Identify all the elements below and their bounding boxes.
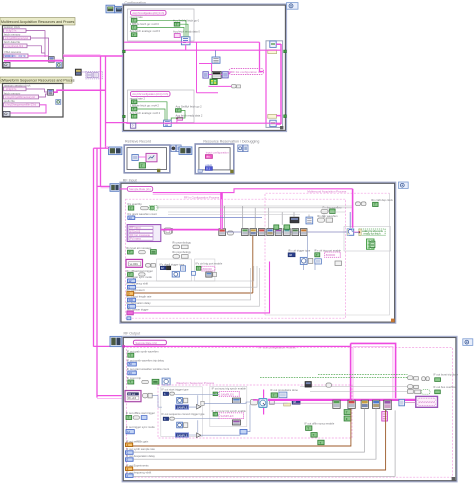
- icon right of Resource Reservation: [238, 145, 243, 152]
- cluster constant: RF out list (hex style): [125, 391, 141, 402]
- wire: merge2 to right: [136, 122, 281, 124]
- wire: sample rate to chain (magenta n shape): [125, 345, 351, 347]
- ring constant navy small 1: [163, 392, 168, 396]
- numeric constant orange 2: [126, 467, 133, 471]
- wire: B box2 to VI: [39, 94, 48, 97]
- node: feedback top: [270, 41, 276, 47]
- node: build array: [212, 57, 220, 63]
- wire: cluster to VI magenta: [161, 229, 219, 231]
- frame: RF In Configuration Process (dashed): [126, 196, 346, 319]
- wire: gray L 5: [133, 410, 395, 476]
- loop condition terminal A: [56, 63, 61, 68]
- VISA resource constant: [4, 54, 29, 58]
- node: small box after arrow1: [201, 401, 204, 405]
- boolean constant: [126, 416, 132, 420]
- icon: error node inside config: [130, 123, 135, 128]
- label: IFx craft dep clock row: [356, 202, 366, 206]
- junction dot: [358, 231, 360, 233]
- svg-text:96 +0/3: 96 +0/3: [128, 397, 137, 400]
- wire: B box3 magenta out: [4, 105, 46, 113]
- group box: dwell trigger: [157, 259, 192, 281]
- node: small gray after VI: [227, 231, 233, 235]
- svg-text:SAMPLEX: SAMPLEX: [221, 392, 234, 396]
- group box: sync trig cluster: [210, 386, 247, 426]
- svg-text:IF out precedains done: IF out precedains done: [270, 388, 298, 392]
- wire: merge1 down: [185, 45, 187, 50]
- node: pair 1: [173, 245, 188, 249]
- node: rounded after: [170, 392, 175, 395]
- numeric constant orange 1: [126, 443, 133, 447]
- VI chain RF Out: [333, 400, 340, 408]
- loop corner: config bottom right: [280, 126, 283, 129]
- svg-text:Multirecord Acquisition Proces: Multirecord Acquisition Process: [307, 190, 346, 194]
- VI icon below 1: [232, 398, 240, 403]
- ring constant: navy small: [292, 400, 300, 405]
- svg-text:T: T: [133, 107, 135, 111]
- nodes: icons row mid right: [181, 266, 186, 271]
- node: small after chain: [399, 399, 405, 405]
- loop corner: retrieve bottom right: [157, 169, 160, 172]
- indicator: waveform green checkered: [367, 239, 375, 249]
- numeric constant blue: [128, 285, 136, 289]
- svg-text:IFx output length rate: IFx output length rate: [126, 294, 152, 298]
- svg-text:IFx grant waveften count: IFx grant waveften count: [128, 212, 158, 216]
- boolean constant: [131, 107, 137, 111]
- node: pair right of hex: [146, 264, 156, 268]
- svg-text:dWaveform Sequencer Resources: dWaveform Sequencer Resources and Proces: [1, 79, 75, 83]
- svg-text:IFx dep waveften: IFx dep waveften: [317, 214, 338, 218]
- constant: beige box: [284, 403, 291, 406]
- svg-text:IM: IM: [161, 267, 164, 270]
- svg-text:IF out offline start trigger: IF out offline start trigger: [126, 411, 155, 415]
- frame: RF Out Configuration Process (dashed): [127, 345, 453, 477]
- wire: nested gray L's to trigger icons: [136, 266, 260, 306]
- wire: B out right: [63, 89, 106, 91]
- boolean constant: [128, 353, 134, 357]
- terminal: config left tunnel 1: [123, 50, 126, 53]
- tunnel label top: [268, 50, 277, 54]
- svg-text:T: T: [198, 266, 200, 270]
- svg-text:Waveform Sequencer Process: Waveform Sequencer Process: [176, 381, 214, 385]
- ring constant navy: [160, 266, 165, 270]
- svg-text:Pd mass: Pd mass: [130, 237, 141, 241]
- string constant: session clock: [4, 29, 27, 33]
- svg-text:IFx avail Rp: IFx avail Rp: [128, 202, 143, 206]
- wire: brown vertical: [134, 236, 253, 293]
- boolean constant: [128, 380, 134, 384]
- svg-text:l/cfg/3 fs: l/cfg/3 fs: [6, 87, 17, 91]
- boolean indicator row 3: [435, 390, 441, 394]
- node: row 3: [408, 390, 421, 394]
- boolean constant: [176, 109, 182, 113]
- label box: Sample Rate (x2) out: [133, 340, 166, 345]
- icon: stop watch at RF Input top-right: [399, 182, 409, 188]
- wire: B box1 to VI: [26, 89, 48, 92]
- error cluster constant left: [179, 147, 192, 155]
- wire: B to config lower tunnel: [106, 122, 132, 125]
- icon: stop watch at Configuration top-right: [287, 3, 299, 10]
- wire: config right vertical pair: [260, 42, 264, 71]
- cluster label dotted 1: [219, 392, 239, 397]
- green dashed indicator: [149, 205, 158, 210]
- boolean constant T: [131, 19, 137, 23]
- svg-text:c:/my2db/memory.txt: c:/my2db/memory.txt: [5, 36, 28, 40]
- wire: A out to Configuration: [63, 55, 123, 57]
- svg-text:IFx craft dep clock: IFx craft dep clock: [371, 198, 393, 202]
- node: feedback bottom: [270, 120, 276, 126]
- wire: vertical bus x=105.5: [105, 56, 107, 148]
- svg-text:l/cfg/3 fs: l/cfg/3 fs: [6, 29, 17, 33]
- error cluster constants left of Configuration: [106, 5, 115, 13]
- wire: tunnel crossing left border: [122, 345, 125, 348]
- string constant: hex display: [126, 259, 143, 267]
- svg-text:T: T: [133, 26, 135, 30]
- wire: branch to RF Input: [97, 185, 110, 187]
- terminal: config right tunnels: [284, 50, 287, 53]
- boolean constant green: [139, 163, 145, 168]
- node: unbundle: [222, 72, 228, 78]
- loop corner: resource bottom right: [230, 170, 233, 173]
- error cluster constant left of RF Input: [110, 184, 120, 192]
- error cluster constant left of Retrieve Record: [109, 147, 122, 155]
- loop corner: RF Input bottom right: [391, 319, 395, 323]
- boolean constant: [271, 393, 277, 398]
- boolean constant: [213, 412, 217, 416]
- wire: xpower trigger pink L: [133, 262, 269, 313]
- svg-text:SAMPLE: SAMPLE: [177, 433, 188, 437]
- frame: Configuration while loop: [123, 5, 286, 132]
- svg-text:T: T: [319, 441, 321, 445]
- svg-text:IF out sequence convert trigge: IF out sequence convert trigger type: [162, 412, 206, 416]
- wire: green dashed H pair: [318, 374, 408, 376]
- svg-text:RF Output: RF Output: [124, 331, 141, 335]
- VISA icon between frames: [75, 69, 81, 75]
- wire: VISA to VI (magenta): [28, 55, 49, 57]
- VI icon: trig helper: [206, 272, 212, 277]
- wire: blue verticals RF out: [218, 393, 387, 416]
- svg-text:RF out: RF out: [128, 393, 136, 396]
- node: build waveform: [306, 217, 313, 224]
- boolean indicator: [152, 379, 159, 384]
- node: small icon right of triggers: [335, 261, 342, 266]
- node: compare icon: [162, 378, 170, 385]
- numeric constant blue: [128, 371, 137, 375]
- wire: retrieve links: [138, 156, 146, 158]
- boolean constant: [131, 26, 137, 30]
- numeric constant blue: [128, 279, 136, 283]
- svg-text:Acq fetch ready data 2: Acq fetch ready data 2: [176, 113, 203, 117]
- wire: center cluster links: [208, 72, 231, 75]
- svg-text:RF In Configuration Process: RF In Configuration Process: [184, 196, 220, 200]
- node: index array center: [203, 72, 209, 78]
- wire: box3 to VI: [27, 46, 45, 53]
- blue constant: [205, 167, 212, 171]
- green array icon: [370, 241, 375, 247]
- wire: vertical bus x=93.5 long: [93, 148, 95, 346]
- wire: gray H rows right: [300, 387, 408, 392]
- string constant: clock: [4, 87, 27, 91]
- svg-text:Resource Reservation / Debuggi: Resource Reservation / Debugging: [203, 140, 259, 144]
- svg-text:IF out bus overflow: IF out bus overflow: [433, 385, 456, 389]
- wire: chain links: [226, 231, 360, 233]
- wire: vertical bus x=100.5: [100, 56, 102, 187]
- wire: config magenta H2: [124, 49, 281, 51]
- error cluster constant left of RF Output: [110, 336, 122, 346]
- wires: trigger section links: [175, 394, 219, 418]
- cluster label dotted right: [325, 252, 341, 257]
- boolean constant: [128, 273, 134, 277]
- node: fetch VI magenta: [146, 153, 157, 161]
- wire: cluster out: [152, 395, 158, 397]
- icons right of Retrieve Record: [171, 145, 176, 152]
- magenta constant box: [177, 117, 183, 120]
- loop condition terminal B: [56, 100, 61, 105]
- svg-text:c:/my2/my2db/memory.txt: c:/my2/my2db/memory.txt: [5, 95, 35, 99]
- svg-text:T: T: [374, 203, 376, 207]
- label box: Acq Ch1 configuration (ACQ 1 Ch): [131, 10, 167, 15]
- boolean constants under chain: [344, 410, 351, 415]
- terminal: config left tunnel 2: [123, 115, 126, 118]
- boolean constant: [128, 250, 134, 254]
- node: rounded pair: [139, 273, 145, 276]
- icon: stop watch at RF Output top-right: [463, 339, 473, 346]
- svg-text:F: F: [346, 417, 348, 421]
- node: compound circle icon 2: [177, 422, 183, 428]
- node: arrow glyph: [141, 206, 149, 209]
- svg-text:VXI0::MXI::INSTR: VXI0::MXI::INSTR: [5, 56, 26, 58]
- svg-text:800000: 800000: [326, 253, 336, 257]
- wire: blue verticals lower: [304, 236, 315, 270]
- wire: config magenta H1: [124, 41, 260, 43]
- svg-text:RF list configuration out: RF list configuration out: [231, 70, 262, 74]
- numeric constant blue r2: [126, 451, 134, 455]
- boolean constant: [315, 253, 320, 257]
- svg-text:SAMPLEX: SAMPLEX: [220, 414, 233, 418]
- svg-text:Acq SetMyl fetch go 2: Acq SetMyl fetch go 2: [176, 105, 203, 109]
- svg-text:input configuration: input configuration: [206, 151, 229, 155]
- cluster constant: RF list rows: [127, 225, 161, 242]
- svg-text:c:/my2/vs2-f13: c:/my2/vs2-f13: [5, 44, 23, 48]
- wire: gray L 3: [133, 408, 376, 459]
- node: small pair below: [315, 259, 322, 264]
- boolean constant: [131, 100, 137, 104]
- wire: brown L 4: [133, 410, 386, 470]
- node: small blue terminal bottom: [127, 317, 131, 320]
- svg-text:IF out synth waveften trip del: IF out synth waveften trip delay: [127, 358, 165, 362]
- boolean constants scattered: [311, 433, 317, 438]
- node: compound circle icon: [177, 398, 183, 404]
- numeric constant blue small: [141, 416, 147, 420]
- numeric indicator blue pair bottom: [240, 430, 247, 435]
- svg-text:T: T: [130, 206, 132, 210]
- boolean constant: [128, 206, 134, 210]
- express VI: acquisition: [347, 229, 353, 235]
- svg-text:ready for fetch: ready for fetch: [364, 231, 381, 235]
- label box: waiting for all records (green): [359, 229, 385, 236]
- svg-text:T: T: [141, 164, 143, 168]
- boolean indicator green: [151, 250, 157, 255]
- wire: branch to Retrieve Record: [94, 147, 109, 149]
- ring constant blue: [288, 253, 295, 257]
- svg-text:T: T: [346, 411, 348, 415]
- wire: main magenta bus out of frame A: [4, 60, 63, 62]
- svg-text:0 1: 0 1: [206, 167, 210, 171]
- loop corner: RF Output bottom right: [452, 477, 456, 481]
- wire: pink drop to express VI: [352, 189, 354, 228]
- ring constant: SAMPLE navy 2: [176, 433, 189, 437]
- boolean constant: [373, 202, 379, 206]
- label box: Acq Ch2 configuration (ACQ 2 Ch): [131, 91, 171, 96]
- svg-text:T: T: [273, 393, 275, 397]
- green dashed label row 3: [421, 390, 430, 395]
- indicator: magenta array stack: [382, 412, 388, 421]
- group box: trig synch enable: [195, 259, 215, 281]
- svg-text:T: T: [176, 22, 178, 26]
- svg-text:800000: 800000: [203, 267, 213, 271]
- numeric constant blue: [128, 305, 136, 309]
- VI icon: acquisition process: [49, 57, 55, 63]
- svg-text:IFx psymbology: IFx psymbology: [172, 250, 191, 254]
- icon: green checkered center: [210, 79, 217, 85]
- magenta constant: [127, 311, 133, 315]
- svg-text:Sample Rate (2x): Sample Rate (2x): [135, 341, 157, 345]
- boolean constant: [196, 266, 201, 270]
- group box ACQ 1: [128, 9, 195, 41]
- string constant: sequence file: [4, 103, 40, 107]
- magenta constant box: [174, 34, 180, 38]
- cluster label dotted 2: [219, 413, 244, 419]
- svg-text:c:/my2/sequencer/file-13-d: c:/my2/sequencer/file-13-d: [5, 103, 36, 107]
- VI icon: dark fetch above chain: [305, 382, 311, 388]
- node: trig icon below: [300, 257, 307, 264]
- node: arrow merge 1: [197, 404, 202, 409]
- frame: Retrieve Record sequence: [124, 145, 170, 173]
- cluster label: port enable dotted: [202, 266, 215, 271]
- numeric constant blue: [128, 362, 137, 366]
- icon: open/create file: [3, 62, 10, 67]
- VI icon: fetch dark: [290, 217, 299, 223]
- node: retrieve VI: [132, 155, 138, 161]
- svg-text:IF out sync trig synch enable: IF out sync trig synch enable: [212, 386, 247, 390]
- boolean constant: [131, 114, 137, 118]
- wire: gray H upper mid: [168, 212, 345, 215]
- svg-text:Multirecord Acquisition Resour: Multirecord Acquisition Resources and Pr…: [1, 20, 75, 24]
- string constant: fetch data file: [4, 44, 28, 48]
- wire: thick pink chain bus: [253, 399, 259, 401]
- node: small pair right: [231, 84, 240, 88]
- wire: sample rate pink pair to right: [120, 189, 353, 193]
- numeric constant blue r3: [126, 458, 134, 462]
- svg-text:T: T: [313, 433, 315, 437]
- boolean constant: [131, 33, 137, 37]
- svg-text:T: T: [177, 109, 179, 113]
- frame: inner for-loop right: [266, 41, 283, 128]
- node: rounded pair: [142, 380, 149, 383]
- label box: RF list configuration out: [229, 69, 264, 75]
- string constant: fetch memory: [4, 36, 31, 40]
- svg-text:Sample Rate (2x): Sample Rate (2x): [129, 187, 151, 191]
- indicator: waveform cluster purple box: [416, 396, 438, 407]
- numeric constant blue r5: [126, 474, 134, 478]
- express VI: wait clock: [259, 399, 267, 408]
- cluster constant dashed (config data): [86, 71, 103, 79]
- node: close VI: [164, 228, 171, 234]
- wire: gray H bus rows: [135, 217, 262, 219]
- wire: gray verticals into chain: [225, 206, 329, 229]
- svg-text:T: T: [133, 100, 135, 104]
- wire: blue drop into express VI: [349, 212, 351, 228]
- svg-text:IF out offlin synco enable: IF out offlin synco enable: [304, 421, 334, 425]
- node: rounded after 2: [170, 417, 175, 420]
- VI icon below 2: [232, 420, 240, 425]
- node: merge signals 2: [164, 120, 172, 126]
- svg-text:Retrieve Record: Retrieve Record: [125, 140, 151, 144]
- wire: group2 to merge2: [137, 102, 167, 120]
- node: box after: [279, 392, 287, 398]
- group box ACQ 2: [128, 90, 195, 123]
- VI chain icons: [242, 229, 249, 236]
- node: pair 2: [173, 255, 188, 259]
- node: compound icon: [172, 271, 179, 277]
- svg-text:T: T: [307, 427, 309, 431]
- boolean constant: [213, 392, 217, 396]
- string constant: waveform memory file: [4, 95, 39, 99]
- frame A: multirecord acquisition loop: [3, 26, 64, 69]
- node: CTO row 2: [408, 385, 419, 389]
- node: IFB pair: [250, 399, 257, 405]
- group box: fetch ready: [344, 227, 391, 252]
- wire: gray L 2: [133, 408, 364, 452]
- frame: RF Input while loop: [120, 183, 395, 323]
- svg-text:Acq fetch ready data 0: Acq fetch ready data 0: [173, 30, 200, 34]
- node: array size pair: [164, 228, 173, 233]
- boolean constant: [306, 426, 312, 431]
- svg-text:T: T: [133, 33, 135, 37]
- svg-text:T: T: [128, 416, 130, 420]
- svg-text:SAMPLE: SAMPLE: [177, 405, 188, 409]
- icon: open/create file B: [3, 111, 10, 116]
- label box: Sample Rate (x2): [127, 187, 152, 192]
- wire: branch to RF Output cluster: [97, 395, 125, 397]
- svg-text:IFx ctrl trig port enable: IFx ctrl trig port enable: [196, 261, 223, 265]
- node: type cast (black top): [212, 71, 221, 78]
- numeric constant blue: [128, 298, 136, 302]
- svg-text:vs 001: vs 001: [130, 262, 139, 266]
- frame: RF Output while loop: [123, 337, 457, 482]
- svg-text:VISA resource: VISA resource: [4, 50, 22, 54]
- ring constant: SAMPLE navy 1: [176, 405, 189, 409]
- boolean constant: [174, 22, 180, 26]
- numeric constant blue: [126, 430, 134, 434]
- node: CTO row 1: [408, 376, 430, 381]
- boolean indicator 1: [435, 378, 441, 382]
- svg-text:Acq Ch1 configuration (ACQ 1 C: Acq Ch1 configuration (ACQ 1 Ch): [132, 11, 164, 15]
- wire: thick pink drop to config VI: [220, 193, 223, 229]
- tunnel label bottom: [268, 114, 277, 118]
- numeric constant orange: [127, 292, 134, 296]
- node: arrow merge 2: [197, 433, 202, 438]
- node: merge signals 1: [181, 37, 190, 45]
- node: small icons under precedains: [270, 400, 275, 404]
- wire: group1 to merge: [137, 20, 186, 37]
- frame: Resource Reservation sequence: [195, 144, 234, 174]
- wire: pink vertical through clock: [263, 390, 265, 415]
- label: Multirecord Acquisition Resources and Process: [0, 18, 75, 26]
- node: small pair: [166, 266, 170, 270]
- wire: pink box to H: [176, 120, 178, 124]
- frame: Waveform Sequencer Process (dashed): [158, 381, 352, 438]
- svg-text:IF out burst trip done: IF out burst trip done: [433, 373, 458, 377]
